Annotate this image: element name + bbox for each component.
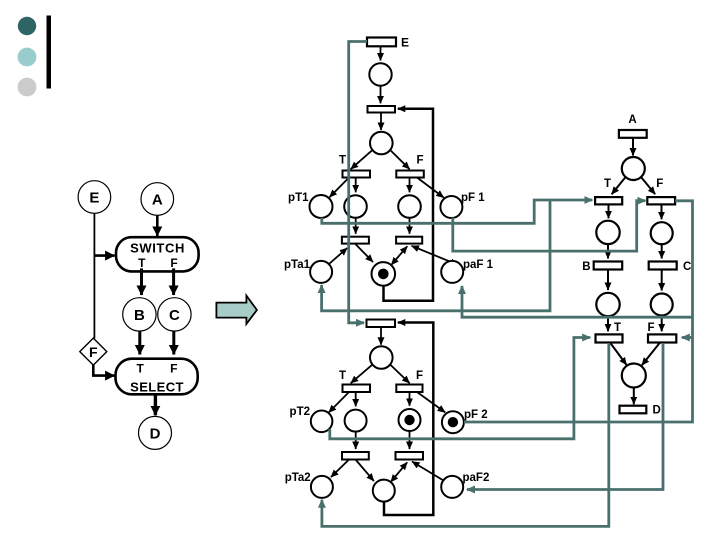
wire pC to tC xyxy=(661,244,663,258)
svg-text:F: F xyxy=(647,322,654,334)
wire B to SELECT xyxy=(138,331,141,354)
wire pA to tT (right net) xyxy=(612,177,626,194)
wire T1 to place c2 xyxy=(355,178,357,193)
place cc center (net2) xyxy=(373,480,395,502)
place paF2 (net2) xyxy=(441,476,463,498)
wire SELECT to D xyxy=(154,394,157,415)
svg-text:SWITCH: SWITCH xyxy=(130,241,185,256)
svg-text:T: T xyxy=(339,370,346,382)
wire pA to tF (right net) xyxy=(641,177,655,194)
svg-text:D: D xyxy=(150,425,161,442)
teal wire tFb right net to paF2 xyxy=(467,343,663,490)
teal wire tF right net to paF1 xyxy=(462,286,693,317)
wire tA to pA xyxy=(632,138,634,156)
svg-text:D: D xyxy=(653,405,661,417)
svg-text:A: A xyxy=(628,114,636,126)
wire t3R and paF1 (both directions) xyxy=(412,246,458,265)
block arrow xyxy=(216,296,257,324)
svg-text:F: F xyxy=(170,362,177,376)
wire p2 to transition F1 xyxy=(391,151,410,170)
node D (flowchart) xyxy=(139,416,172,449)
svg-text:E: E xyxy=(89,190,99,207)
wire F2 to pF2 xyxy=(417,392,445,412)
wire t4L to center place xyxy=(356,460,374,482)
SELECT block xyxy=(116,359,198,395)
svg-text:paF2: paF2 xyxy=(463,472,490,484)
place pC (right net) xyxy=(651,222,673,244)
place pB2 (right net) xyxy=(596,293,619,316)
wire t2 to p2 xyxy=(380,113,382,131)
node A (flowchart) xyxy=(141,183,174,216)
wire SWITCH T to B xyxy=(140,268,143,295)
svg-text:T: T xyxy=(138,256,146,270)
wire center place and t4R (both directions) xyxy=(391,462,408,482)
wire E branch into SWITCH xyxy=(94,254,115,257)
teal bus tF right edge down xyxy=(464,201,693,422)
teal wire pF1 to tF right net xyxy=(453,201,646,251)
transition tTb (right net) xyxy=(596,334,623,342)
place p2 (net1) xyxy=(370,132,393,155)
svg-text:F: F xyxy=(89,344,98,360)
wire p21 to transition T2 xyxy=(351,365,372,383)
svg-text:pF 1: pF 1 xyxy=(461,192,485,204)
wire SWITCH F to C xyxy=(172,268,175,295)
wire c2 to t3L xyxy=(355,218,357,234)
node B (flowchart) xyxy=(123,298,156,331)
place paF1 (net1) xyxy=(441,261,463,283)
wire E down xyxy=(93,213,95,338)
decoration vertical bar xyxy=(47,16,52,89)
wire t4L to pTa2 xyxy=(331,460,349,478)
svg-text:SELECT: SELECT xyxy=(130,380,184,395)
transition tC (right net) xyxy=(649,262,677,270)
place pC2 (right net) xyxy=(651,294,673,316)
wire C to SELECT xyxy=(172,331,175,354)
place pTa1 (net1) xyxy=(310,261,332,283)
svg-text:pTa1: pTa1 xyxy=(284,259,311,271)
transition A (right net) xyxy=(619,130,647,138)
place c3 (net1) xyxy=(398,195,421,218)
black feedback net1 xyxy=(384,109,434,301)
wire p1 to t2 xyxy=(380,86,382,104)
wire pB2 to tTb xyxy=(607,316,609,331)
transition T2 (net2) xyxy=(343,385,371,393)
wire tC to place xyxy=(661,270,663,291)
place pT1 (net1) xyxy=(310,195,333,218)
decoration bullet light teal xyxy=(18,48,37,67)
transition tF (right net) xyxy=(647,197,675,204)
transition t4L (net2) xyxy=(342,452,369,460)
svg-text:C: C xyxy=(683,261,691,273)
wire tF to place xyxy=(661,204,663,219)
transition tT (right net) xyxy=(595,197,622,204)
place c22 (net2) xyxy=(345,410,367,432)
wire transition E to place xyxy=(380,46,382,60)
transition t3L (net1) xyxy=(342,237,369,244)
transition t2 (net1) xyxy=(368,106,396,113)
svg-text:A: A xyxy=(152,192,163,209)
svg-text:F: F xyxy=(656,178,663,190)
transition F2 (net2) xyxy=(396,385,422,393)
wire c23 to t4R xyxy=(409,431,411,449)
teal wire tTb right net to pTa2 xyxy=(322,343,609,526)
wire F1 to pF1 xyxy=(417,178,444,198)
svg-text:T: T xyxy=(339,155,346,167)
wire F diamond into SELECT xyxy=(93,365,114,376)
SWITCH block xyxy=(116,237,199,271)
decoration bullet gray xyxy=(18,78,37,97)
svg-text:T: T xyxy=(604,178,611,190)
wire T2 to place c22 xyxy=(355,392,357,406)
svg-text:B: B xyxy=(582,261,590,273)
wire c3 to t3R xyxy=(409,218,411,234)
place pA (right net) xyxy=(622,157,645,180)
wire tFb to pD xyxy=(642,343,660,366)
wire pC2 to tFb xyxy=(661,316,663,332)
place pT2 (net2) xyxy=(311,411,333,433)
transition T1 (net1) xyxy=(343,171,371,178)
svg-text:pT2: pT2 xyxy=(290,406,310,418)
svg-text:pF 2: pF 2 xyxy=(464,409,488,421)
place c23 marked (net2) xyxy=(399,409,421,431)
teal wire tT right net to pTa1 xyxy=(322,200,550,311)
wire F1 to place c3 xyxy=(409,178,411,193)
svg-text:T: T xyxy=(614,322,621,334)
transition E (net1) xyxy=(367,36,409,50)
wire paF2 to t4R xyxy=(412,462,443,481)
place p21 (net2) xyxy=(370,346,393,369)
transition t4R (net2) xyxy=(396,452,424,460)
place pF1 (net1) xyxy=(440,196,462,218)
svg-text:F: F xyxy=(170,256,177,270)
place pD (right net) xyxy=(622,364,646,388)
node F diamond (flowchart) xyxy=(80,338,107,365)
svg-text:F: F xyxy=(416,370,423,382)
place marked m1 (net1) xyxy=(372,262,396,286)
wire p2 to transition T1 xyxy=(351,151,372,170)
wire pTa1 to t3L xyxy=(330,248,348,264)
svg-text:paF 1: paF 1 xyxy=(463,259,494,271)
wire p21 to transition F2 xyxy=(391,365,410,383)
wire tB to place xyxy=(607,270,609,291)
svg-text:pTa2: pTa2 xyxy=(285,472,311,484)
wire t2top to p21 xyxy=(380,327,382,345)
svg-text:B: B xyxy=(134,307,145,324)
black feedback net2 xyxy=(384,323,433,516)
place pTa2 (net2) xyxy=(311,476,333,498)
svg-text:T: T xyxy=(137,362,145,376)
teal wire E to net2 start xyxy=(349,42,367,323)
wire A to SWITCH xyxy=(156,215,159,236)
transition tFb (right net) xyxy=(648,334,676,342)
wire pD to tD xyxy=(633,388,635,405)
svg-text:pT1: pT1 xyxy=(288,192,309,204)
place pF2 marked (net2) xyxy=(442,411,464,433)
wire pB to tB xyxy=(607,244,609,258)
wire F2 to place c23 xyxy=(409,392,411,406)
wire T2 to pT2 xyxy=(329,392,349,413)
transition tB (right net) xyxy=(594,262,623,270)
teal wire pT2 to tTb right net xyxy=(330,338,590,439)
decoration bullet dark xyxy=(18,17,36,35)
node E (flowchart) xyxy=(78,181,111,214)
place pB (right net) xyxy=(596,221,619,244)
svg-text:F: F xyxy=(416,155,423,167)
place c2 (net1) xyxy=(344,195,367,218)
teal wire pT1 to tT right net xyxy=(322,200,593,223)
wire tT to place xyxy=(608,204,610,218)
svg-text:E: E xyxy=(401,36,409,50)
wire marked place and t3R (both directions) xyxy=(391,246,407,265)
wire t3L to marked place xyxy=(355,244,373,262)
svg-text:C: C xyxy=(169,307,180,324)
transition F1 (net1) xyxy=(396,171,424,178)
wire T1 to pT1 xyxy=(330,178,350,198)
node C (flowchart) xyxy=(158,298,191,331)
transition t3R (net1) xyxy=(396,237,422,244)
transition t2top (net2) xyxy=(367,320,396,328)
wire c22 to t4L xyxy=(355,432,357,449)
wire tTb to pD xyxy=(610,343,627,366)
teal arrow into tFb right net xyxy=(682,336,693,339)
place p1 (net1) xyxy=(369,63,391,85)
transition tD (right net) xyxy=(620,406,647,414)
